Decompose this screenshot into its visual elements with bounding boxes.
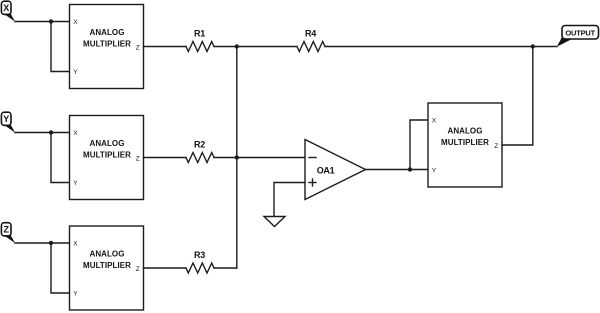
wire U3.Z to R3: [144, 267, 187, 269]
svg-text:R1: R1: [194, 28, 205, 38]
wire U2.Z to R2: [144, 157, 187, 159]
wire R3 to bus: [214, 267, 237, 269]
svg-text:Z: Z: [136, 155, 140, 162]
svg-text:Z: Z: [3, 224, 9, 234]
node C: [235, 155, 239, 159]
resistor R3: [186, 250, 214, 273]
wire X branch down: [51, 22, 70, 72]
input flag Z: [1, 223, 15, 244]
svg-text:R4: R4: [305, 28, 316, 38]
wire R4 to output flag: [325, 46, 557, 48]
svg-text:ANALOG: ANALOG: [90, 139, 125, 148]
svg-text:Y: Y: [73, 69, 78, 76]
wire Z branch down: [51, 243, 70, 293]
wire U4.Z up to node B: [502, 47, 533, 146]
svg-text:X: X: [73, 130, 78, 137]
wire R1 to node A: [214, 46, 237, 48]
node D: [408, 167, 412, 171]
svg-text:MULTIPLIER: MULTIPLIER: [83, 39, 131, 48]
svg-text:Y: Y: [73, 290, 78, 297]
analog multiplier U2: [70, 116, 144, 200]
analog multiplier U4: [428, 103, 502, 187]
svg-text:X: X: [3, 3, 9, 13]
svg-text:X: X: [73, 240, 78, 247]
wire op-amp + input to ground: [274, 183, 305, 217]
analog multiplier U1: [70, 5, 144, 89]
svg-text:MULTIPLIER: MULTIPLIER: [83, 150, 131, 159]
svg-text:OA1: OA1: [317, 166, 335, 176]
node B: [531, 44, 535, 48]
op-amp OA1: [305, 140, 366, 200]
resistor R4: [297, 28, 325, 51]
analog multiplier U3: [70, 226, 144, 310]
wire Y branch down: [51, 133, 70, 183]
wire U1.Z to R1: [144, 46, 187, 48]
svg-text:MULTIPLIER: MULTIPLIER: [83, 261, 131, 270]
wire node C to op-amp inverting input: [237, 157, 305, 159]
output flag OUTPUT: [557, 26, 599, 47]
resistor R2: [186, 139, 214, 162]
svg-text:ANALOG: ANALOG: [448, 126, 483, 135]
svg-text:Y: Y: [73, 180, 78, 187]
svg-text:X: X: [73, 19, 78, 26]
svg-text:MULTIPLIER: MULTIPLIER: [441, 138, 489, 147]
svg-text:Y: Y: [3, 114, 9, 124]
svg-text:Z: Z: [136, 44, 140, 51]
wire Z flag to U3.X: [15, 242, 70, 244]
node X junction: [49, 19, 53, 23]
input flag X: [1, 1, 15, 22]
svg-text:ANALOG: ANALOG: [90, 28, 125, 37]
svg-text:Y: Y: [432, 167, 437, 174]
svg-text:R2: R2: [194, 139, 205, 149]
wire op-amp output to U4.Y: [366, 169, 429, 171]
wire summing bus vertical: [236, 47, 238, 269]
wire branch up to U4.X: [410, 120, 428, 170]
wire node A to R4: [237, 46, 297, 48]
wire X flag to U1.X: [15, 21, 70, 23]
ground: [264, 217, 285, 227]
node A: [235, 44, 239, 48]
svg-text:Z: Z: [494, 143, 498, 150]
svg-text:ANALOG: ANALOG: [90, 249, 125, 258]
node Z junction: [49, 241, 53, 245]
input flag Y: [1, 112, 15, 133]
svg-text:X: X: [432, 117, 437, 124]
svg-text:OUTPUT: OUTPUT: [565, 28, 595, 37]
wire Y flag to U2.X: [15, 132, 70, 134]
wire R2 to node C: [214, 157, 237, 159]
resistor R1: [186, 28, 214, 51]
svg-text:R3: R3: [194, 250, 205, 260]
node Y junction: [49, 130, 53, 134]
svg-text:Z: Z: [136, 266, 140, 273]
